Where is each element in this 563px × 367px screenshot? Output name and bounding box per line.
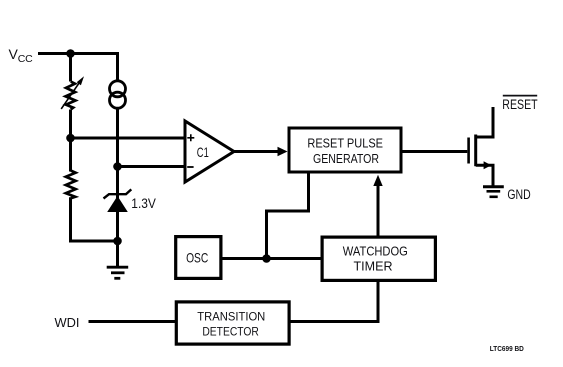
- wire right rail top (VCC corner down to current source): [116, 52, 119, 81]
- svg-text:TRANSITION: TRANSITION: [197, 310, 265, 323]
- resistor R2: [66, 171, 76, 199]
- wire watchdog to RPG with arrowhead: [373, 175, 382, 236]
- svg-text:WDI: WDI: [55, 315, 80, 330]
- svg-text:GENERATOR: GENERATOR: [313, 151, 379, 166]
- block OSC: [176, 237, 221, 279]
- wire RPG output to gate: [403, 150, 468, 153]
- node VCC label: [9, 46, 34, 65]
- ground GND2: [483, 187, 504, 197]
- transistor Q1 N-MOSFET: [469, 107, 493, 186]
- svg-text:RESET PULSE: RESET PULSE: [307, 136, 383, 151]
- svg-text:RESET: RESET: [502, 97, 537, 112]
- zener diode D1: [104, 189, 132, 212]
- wire OSC to watchdog timer: [223, 257, 321, 260]
- wire left rail mid segment: [69, 110, 72, 172]
- svg-text:OSC: OSC: [186, 250, 208, 266]
- svg-text:GND: GND: [507, 187, 530, 202]
- svg-text:WATCHDOG: WATCHDOG: [343, 243, 408, 258]
- block TRANSITION DETECTOR: [176, 302, 289, 344]
- wire transition detector output up to watchdog timer: [291, 282, 379, 322]
- svg-text:C1: C1: [197, 144, 209, 160]
- wire to ground: [116, 241, 119, 266]
- ground GND1: [107, 267, 129, 278]
- wire right rail (current source to bottom junction): [116, 109, 119, 242]
- wire left rail lower segment and bottom link: [71, 197, 118, 241]
- junction dot on OSC line: [262, 254, 271, 263]
- op-amp C1: [185, 121, 234, 182]
- svg-text:DETECTOR: DETECTOR: [202, 325, 259, 338]
- junction dot bottom rail: [113, 237, 122, 246]
- wire RPG bottom jog to OSC line: [267, 174, 309, 259]
- svg-text:CC: CC: [18, 53, 33, 65]
- svg-text:1.3V: 1.3V: [131, 196, 156, 211]
- wire VCC horizontal: [38, 52, 118, 55]
- junction dot comparator - tap: [113, 162, 122, 171]
- wire to comparator + input: [71, 137, 186, 140]
- wire WDI input: [89, 320, 177, 323]
- junction dot VCC / left rail: [66, 49, 75, 58]
- block RESET PULSE GENERATOR: [289, 128, 401, 172]
- current source I1: [110, 81, 126, 108]
- svg-text:LTC699 BD: LTC699 BD: [490, 344, 524, 353]
- block WATCHDOG TIMER: [322, 237, 435, 280]
- node RESET output label with overline: [502, 96, 537, 112]
- wire to comparator - input: [118, 165, 186, 168]
- junction dot comparator + tap: [66, 134, 75, 143]
- svg-text:TIMER: TIMER: [354, 259, 393, 274]
- resistor R1 (variable): [61, 76, 84, 109]
- wire left rail upper segment: [69, 54, 72, 82]
- wire comparator output with arrowhead: [234, 147, 288, 156]
